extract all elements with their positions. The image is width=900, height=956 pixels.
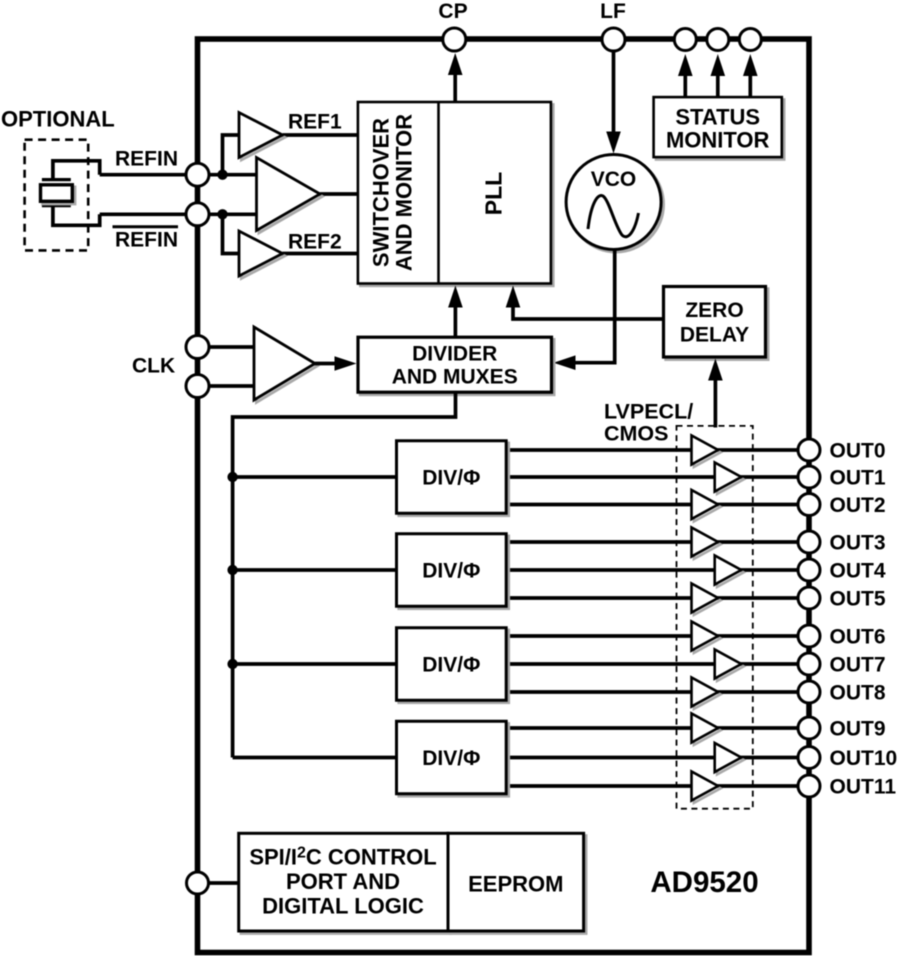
wire out rows group4 (506, 728, 809, 786)
svg-text:SWITCHOVER: SWITCHOVER (369, 118, 394, 267)
svg-text:OUT3: OUT3 (830, 532, 886, 555)
svg-text:CP: CP (438, 0, 467, 23)
block DIVIDER AND MUXES (360, 340, 554, 395)
pin OUT3 (798, 531, 820, 553)
svg-text:REF2: REF2 (288, 231, 342, 254)
junction dot bus 3 (227, 659, 237, 669)
pin CLK (186, 336, 209, 359)
svg-text:REFIN: REFIN (115, 148, 178, 171)
wire REF2 to switchover (283, 252, 358, 256)
wire REF1 branch (223, 135, 241, 175)
label SPI/I2C CONTROL PORT AND DIGITAL LOGIC (249, 845, 436, 919)
pin status 3 (739, 29, 761, 51)
oscillator VCO (566, 155, 663, 252)
pin REFIN (186, 163, 209, 186)
buffer OUT3 (694, 530, 721, 559)
pin OUT1 (798, 466, 820, 488)
svg-text:OUT1: OUT1 (830, 467, 886, 490)
svg-text:OUT5: OUT5 (830, 588, 886, 611)
block DIV4 (399, 724, 509, 797)
buffer OUT10 (717, 745, 744, 774)
svg-text:DELAY: DELAY (680, 324, 749, 347)
dashed box LVPECL/CMOS drivers (677, 426, 753, 809)
crystal dashed box (25, 140, 89, 251)
wire VCO to divider (554, 250, 615, 371)
svg-text:CLK: CLK (132, 355, 175, 378)
svg-text:EEPROM: EEPROM (468, 872, 563, 897)
buffer REFIN differential (259, 160, 323, 233)
svg-text:VCO: VCO (591, 168, 637, 191)
svg-text:DIGITAL LOGIC: DIGITAL LOGIC (262, 894, 424, 919)
pin OUT4 (798, 559, 820, 581)
block DIV2 (399, 536, 509, 609)
block ZERO DELAY (666, 289, 768, 360)
svg-text:DIV/Φ: DIV/Φ (422, 467, 480, 490)
label LVPECL/CMOS (604, 400, 693, 446)
pin OUT6 (798, 625, 820, 647)
buffer OUT2 (694, 492, 721, 521)
svg-text:DIV/Φ: DIV/Φ (422, 747, 480, 770)
pin SPI (187, 872, 209, 894)
pin OUT8 (798, 681, 820, 703)
pin OUT10 (798, 747, 820, 769)
pin OUT9 (798, 717, 820, 739)
buffer OUT11 (694, 774, 721, 803)
svg-text:OUT0: OUT0 (830, 440, 886, 463)
wire bus branch div4 (233, 756, 397, 760)
svg-text:MONITOR: MONITOR (666, 128, 770, 153)
svg-text:PLL: PLL (481, 172, 507, 215)
svg-text:OUT9: OUT9 (830, 718, 886, 741)
wire REFIN-bar net (100, 212, 257, 216)
svg-text:DIV/Φ: DIV/Φ (422, 654, 480, 677)
buffer OUT6 (694, 624, 721, 653)
buffer REF1 (241, 115, 285, 160)
pin status 1 (674, 29, 696, 51)
wire crystal top (53, 161, 100, 180)
pin OUT7 (798, 653, 820, 675)
wire bus branch div3 (233, 662, 397, 666)
buffer OUT4 (717, 558, 744, 587)
buffer CLK (256, 329, 317, 402)
label DIVIDER AND MUXES (392, 343, 518, 389)
wire zero delay input arrow (708, 359, 723, 428)
label REFIN-bar (113, 227, 179, 252)
pin CLK-bar (186, 375, 209, 398)
wire bus branch div1 (233, 475, 397, 479)
svg-text:AND MUXES: AND MUXES (392, 366, 518, 389)
svg-text:OUT7: OUT7 (830, 654, 886, 677)
buffer OUT5 (694, 586, 721, 615)
pin OUT2 (798, 494, 820, 516)
svg-text:REFIN: REFIN (115, 229, 178, 252)
wire divider feedback to PLL (448, 286, 463, 337)
wire status arrow 1 (678, 54, 693, 96)
buffer REF2 (241, 233, 285, 278)
wire CLK buffer to divider (315, 356, 357, 371)
wire out rows group1 (506, 450, 809, 505)
wire LF to VCO arrow (606, 51, 621, 154)
junction dot REFIN (217, 170, 227, 180)
svg-text:LVPECL/: LVPECL/ (604, 400, 693, 424)
svg-text:OUT2: OUT2 (830, 494, 886, 517)
pin LF (602, 28, 625, 51)
junction dot bus 2 (227, 565, 237, 575)
block EEPROM (450, 836, 586, 934)
pin OUT5 (798, 587, 820, 609)
pin OUT0 (798, 439, 820, 461)
wire status arrow 2 (711, 54, 726, 96)
block DIV1 (399, 443, 509, 515)
chip outline AD9520 (198, 39, 810, 953)
svg-text:AD9520: AD9520 (650, 866, 758, 899)
junction dot REFIN-bar (217, 209, 227, 219)
svg-text:LF: LF (600, 0, 626, 23)
pin status 2 (707, 29, 729, 51)
wire crystal bottom (53, 206, 100, 226)
svg-text:DIV/Φ: DIV/Φ (422, 560, 480, 583)
svg-text:SPI/I2C CONTROL: SPI/I2C CONTROL (249, 845, 436, 870)
buffer OUT1 (717, 465, 744, 494)
label ZERO DELAY (680, 299, 749, 347)
svg-text:OUT11: OUT11 (830, 776, 897, 799)
svg-text:CMOS: CMOS (604, 422, 669, 446)
wire out rows group2 (506, 542, 809, 598)
block DIV3 (399, 630, 509, 703)
wire bus branch div2 (233, 568, 397, 572)
buffer OUT7 (717, 652, 744, 681)
svg-text:OPTIONAL: OPTIONAL (1, 107, 115, 132)
svg-text:OUT4: OUT4 (830, 560, 886, 583)
block STATUS MONITOR (656, 100, 784, 160)
label STATUS MONITOR (666, 105, 770, 153)
wire SPI pin (209, 881, 239, 885)
svg-text:AND MONITOR: AND MONITOR (392, 114, 417, 271)
wire CLK inputs (209, 347, 254, 386)
svg-text:STATUS: STATUS (675, 105, 760, 130)
svg-text:OUT8: OUT8 (830, 682, 886, 705)
svg-text:ZERO: ZERO (685, 299, 743, 322)
svg-text:PORT AND: PORT AND (286, 869, 400, 894)
wire zero delay to PLL (506, 286, 664, 320)
wire REF2 branch (223, 214, 241, 253)
junction dot bus 1 (227, 472, 237, 482)
svg-text:OUT10: OUT10 (830, 747, 898, 770)
wire REFIN net (100, 173, 257, 177)
svg-text:REF1: REF1 (288, 111, 342, 134)
block SPI control port (241, 836, 450, 934)
crystal Y1 (41, 180, 75, 206)
buffer OUT9 (694, 716, 721, 745)
svg-text:OUT6: OUT6 (830, 626, 886, 649)
block SWITCHOVER AND MONITOR + PLL (358, 102, 553, 286)
buffer OUT8 (694, 680, 721, 709)
wire REF1 to switchover (283, 133, 358, 137)
wire CP arrow from PLL (448, 53, 463, 101)
wire out rows group3 (506, 636, 809, 692)
pin REFIN-bar (186, 203, 209, 226)
pin OUT11 (798, 775, 820, 797)
svg-text:DIVIDER: DIVIDER (412, 343, 497, 366)
buffer OUT0 (694, 438, 721, 467)
wire status arrow 3 (743, 54, 758, 96)
pin CP (443, 28, 466, 51)
wire ref buffer mid to switchover (320, 192, 358, 196)
wire divider to output bus (233, 392, 456, 757)
